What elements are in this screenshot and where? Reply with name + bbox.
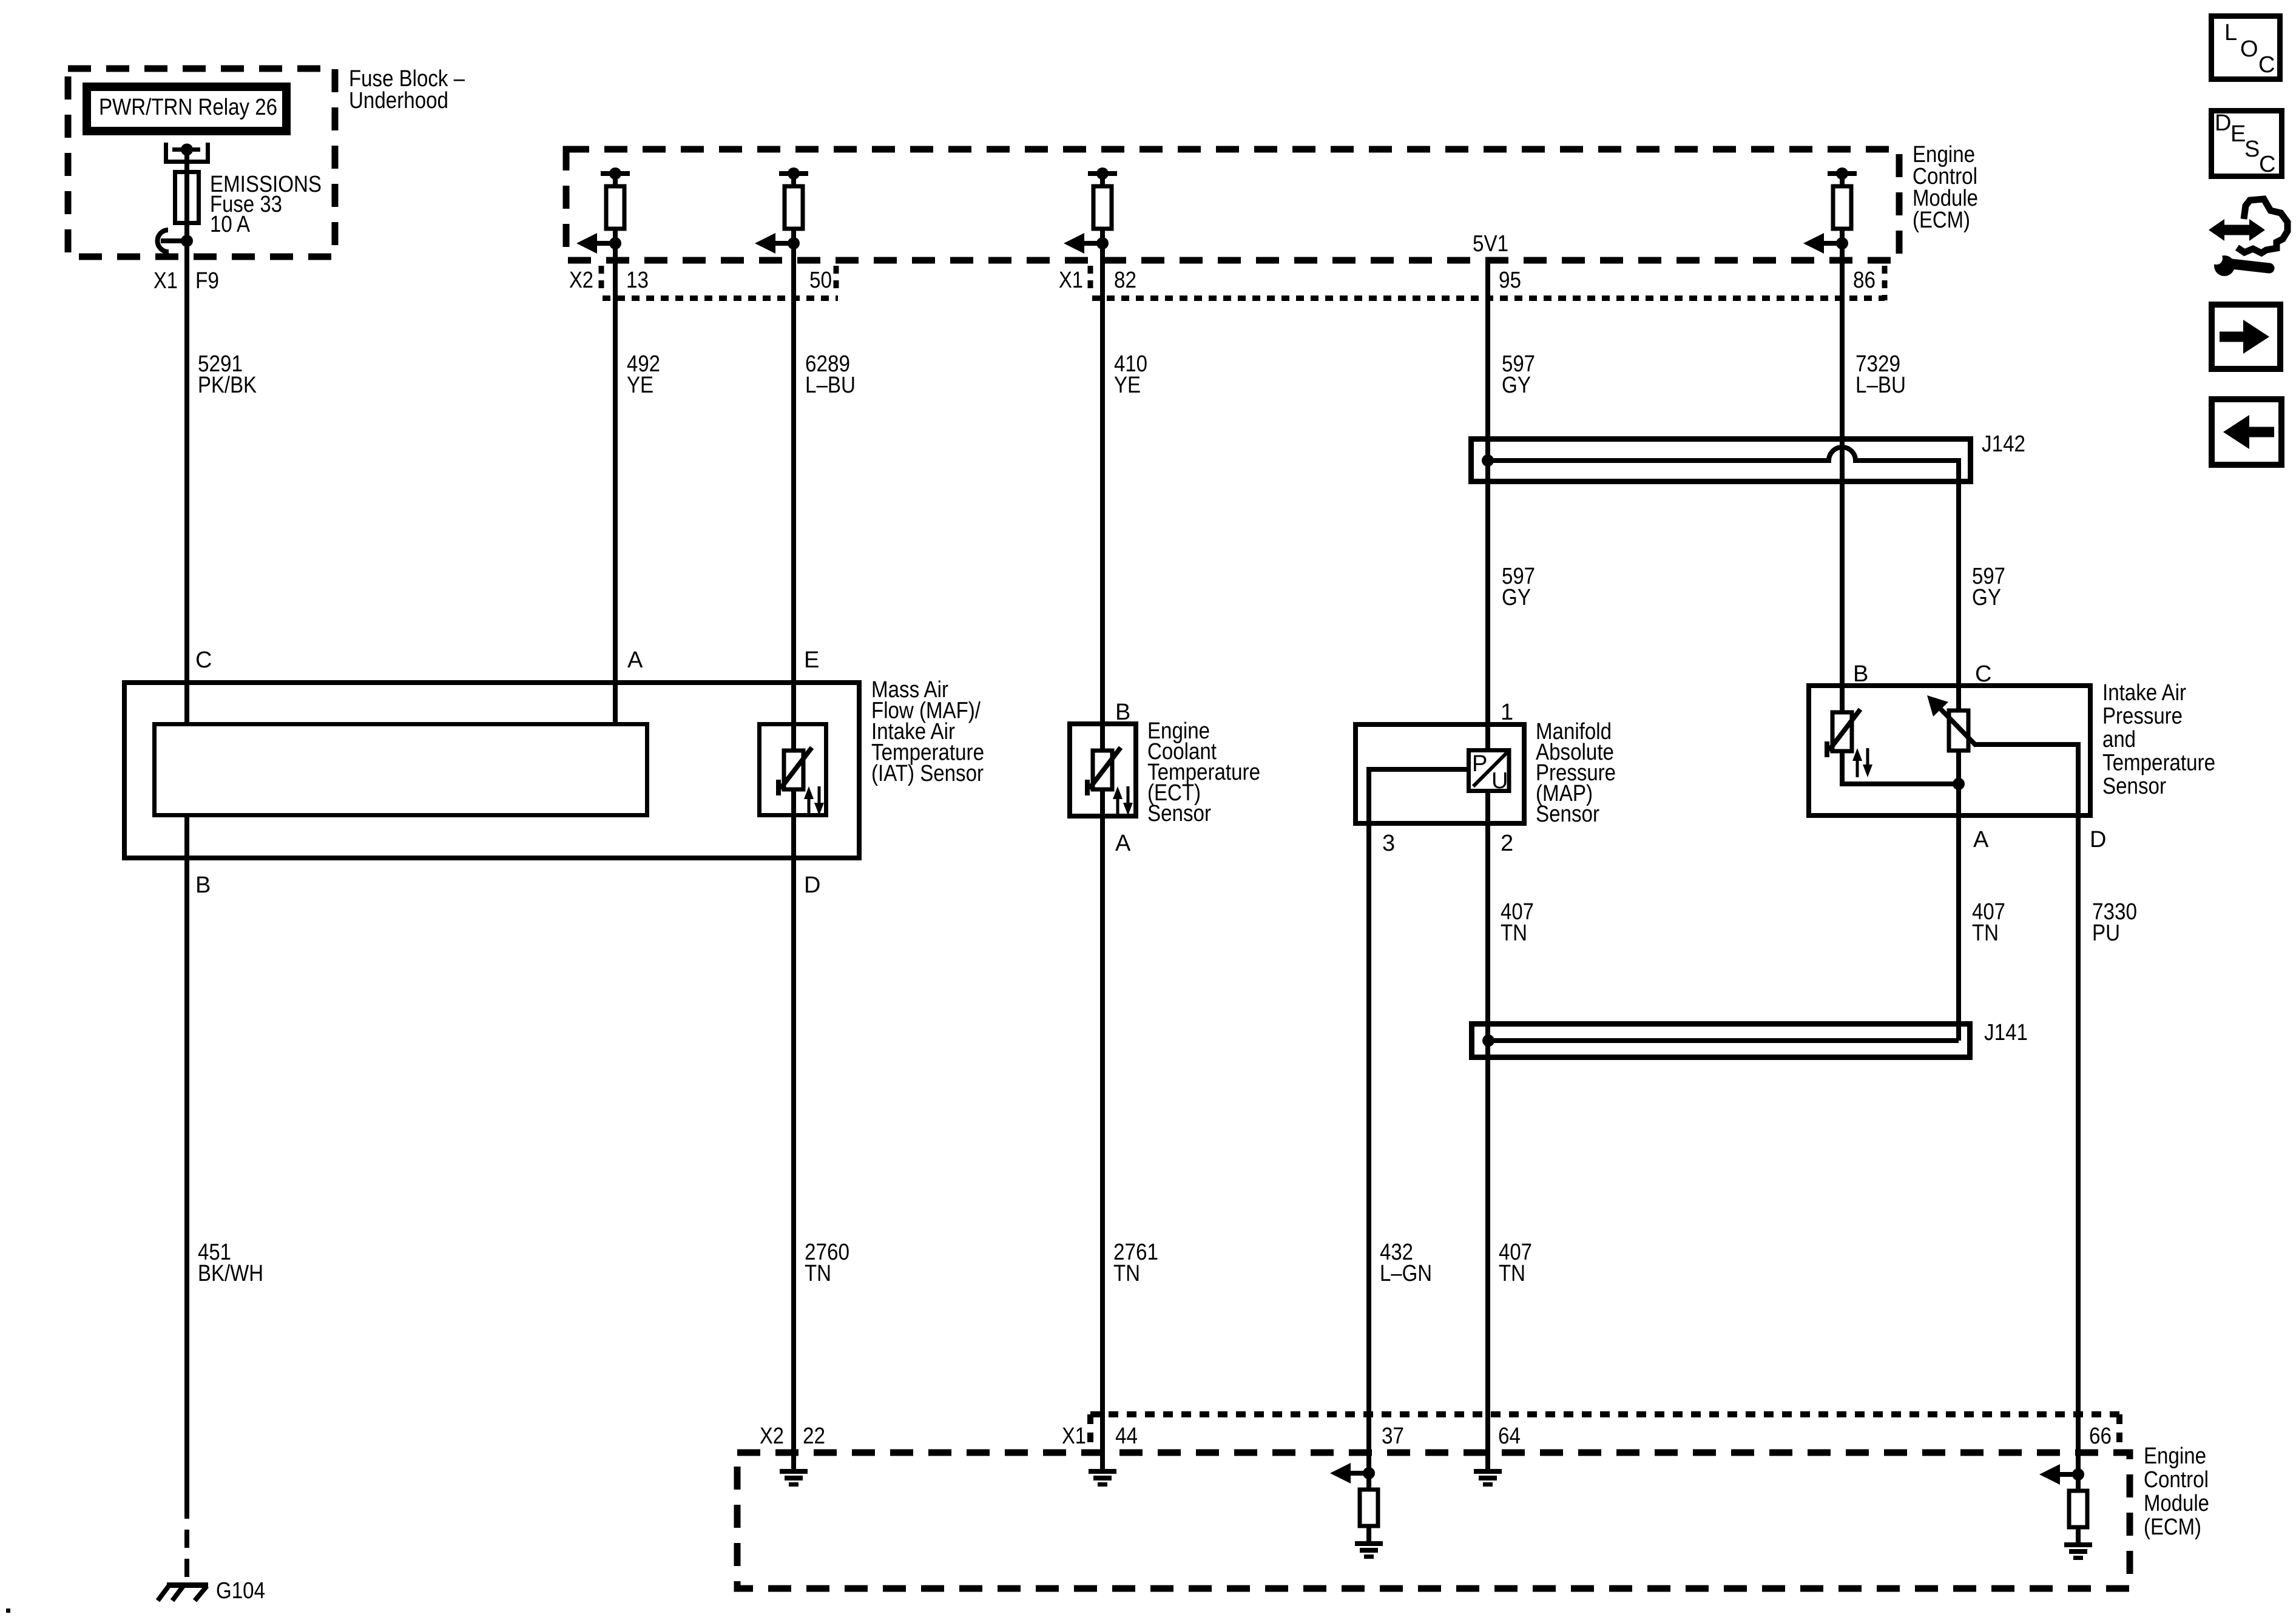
svg-text:64: 64 — [1498, 1423, 1521, 1449]
svg-text:95: 95 — [1499, 268, 1521, 293]
svg-text:(ECM): (ECM) — [1913, 208, 1970, 233]
svg-text:TN: TN — [805, 1261, 831, 1286]
wire 451 BK/WH: MAF pin B to G104 — [184, 817, 189, 1501]
svg-text:S: S — [2244, 137, 2260, 162]
svg-text:Sensor: Sensor — [1147, 801, 1211, 826]
wire 5291 PK/BK from fuse F9 down to MAF sensor pin C — [184, 223, 189, 722]
svg-text:C: C — [2259, 152, 2275, 177]
svg-text:YE: YE — [1114, 373, 1141, 398]
svg-text:C: C — [1975, 661, 1991, 687]
svg-text:D: D — [804, 873, 820, 898]
svg-text:GY: GY — [1972, 585, 2001, 610]
svg-text:X1: X1 — [1062, 1423, 1086, 1449]
svg-text:X1: X1 — [154, 268, 178, 294]
MAP P/U transducer U1 — [1469, 751, 1510, 791]
svg-text:10 A: 10 A — [210, 212, 251, 237]
svg-text:50: 50 — [809, 268, 832, 293]
svg-text:82: 82 — [1114, 268, 1136, 293]
svg-text:TN: TN — [1972, 920, 1999, 946]
svg-text:Pressure: Pressure — [2102, 704, 2183, 729]
svg-text:Temperature: Temperature — [2102, 751, 2215, 776]
svg-text:YE: YE — [627, 373, 653, 398]
connector X2 strip (top) — [601, 266, 838, 299]
svg-text:GY: GY — [1502, 373, 1531, 398]
svg-text:Underhood: Underhood — [349, 88, 448, 113]
ECM internal resistor at pin 86 — [1828, 171, 1857, 176]
ground at ECM pin 64 — [1474, 1469, 1502, 1487]
wire thermistor to pin A junction — [1842, 751, 1959, 784]
svg-text:B: B — [1115, 700, 1130, 725]
icon DESC — [2212, 111, 2282, 177]
svg-text:BK/WH: BK/WH — [198, 1261, 263, 1286]
wire intake pin A down to J141 — [1956, 784, 1961, 1041]
svg-text:L: L — [2224, 20, 2237, 46]
svg-text:C: C — [2258, 52, 2275, 78]
svg-text:PK/BK: PK/BK — [198, 373, 257, 398]
svg-text:1: 1 — [1501, 700, 1513, 725]
MAF/IAT sensor box — [124, 683, 859, 858]
wire 2761 TN: ECT pin A to ECM X1-44 — [1100, 789, 1105, 1469]
svg-text:D: D — [2215, 110, 2231, 136]
svg-text:Engine: Engine — [2144, 1443, 2206, 1469]
node: junction at intake pin A — [1953, 778, 1965, 790]
ECM internal resistor at pin 50 — [779, 171, 808, 176]
svg-text:(IAT) Sensor: (IAT) Sensor — [871, 761, 984, 786]
MAP sensor box — [1356, 724, 1524, 823]
wire MAP pin 3 from P/U to ECM pin 37 — [1369, 769, 1467, 1452]
wire: J141 bus — [1488, 1038, 1959, 1043]
node: fuse output junction — [181, 235, 193, 247]
svg-text:P: P — [1472, 751, 1487, 777]
wire 492 YE: pin 13 to MAF pin A — [613, 229, 618, 722]
MAF element inner box — [155, 724, 647, 815]
svg-text:D: D — [2090, 827, 2106, 852]
wire pot bottom to junction — [1956, 751, 1961, 784]
ground at ECM X1-44 — [1089, 1469, 1116, 1487]
svg-text:E: E — [804, 647, 819, 673]
wire pot wiper to pin D — [1975, 744, 2078, 1453]
ECM internal resistor at pin 13 — [601, 171, 630, 176]
icon LOC — [2212, 16, 2280, 79]
wire 6289 L-BU: pin 50 to IAT thermistor pin E — [791, 229, 796, 751]
svg-text:J142: J142 — [1982, 431, 2025, 457]
IAT thermistor sub-box — [760, 724, 826, 815]
svg-text:66: 66 — [2089, 1423, 2112, 1449]
ECM internal resistor at pin 82 — [1088, 171, 1117, 176]
relay K: PWR/TRN Relay 26 — [87, 87, 286, 131]
svg-text:PU: PU — [2092, 920, 2120, 946]
svg-text:X2: X2 — [569, 268, 593, 293]
fuse clip hook — [157, 230, 169, 252]
svg-text:Module: Module — [2144, 1491, 2209, 1516]
svg-text:44: 44 — [1115, 1423, 1138, 1449]
icon next-page arrow — [2212, 305, 2280, 369]
connector X1 strip (bottom) — [1090, 1414, 2119, 1451]
connector X1 strip (top) — [1090, 266, 1885, 300]
wire MAP pin 2 continues down — [1485, 793, 1490, 1469]
ECT thermistor RT2 — [1093, 751, 1112, 789]
svg-text:F9: F9 — [195, 268, 219, 294]
svg-text:and: and — [2102, 727, 2136, 752]
svg-text:PWR/TRN Relay 26: PWR/TRN Relay 26 — [99, 95, 277, 120]
wire 410 YE: pin 82 to ECT pin B — [1100, 229, 1105, 751]
splice J141 box — [1472, 1024, 1970, 1058]
svg-text:TN: TN — [1499, 1261, 1525, 1286]
ground at ECM X2-22 — [780, 1469, 808, 1487]
intake thermistor RT3 — [1832, 712, 1852, 751]
svg-text:O: O — [2240, 36, 2258, 62]
wire 2760 TN: MAF pin D to ECM X2-22 — [791, 789, 796, 1469]
ECM top dashed box: Engine Control Module (ECM) — [566, 149, 1899, 260]
svg-text:Intake Air: Intake Air — [2102, 680, 2186, 706]
svg-text:L–BU: L–BU — [1855, 373, 1906, 398]
svg-text:B: B — [195, 873, 211, 898]
svg-text:X2: X2 — [760, 1423, 784, 1449]
svg-text:J141: J141 — [1984, 1020, 2028, 1045]
node: J141 junction on 407 TN — [1482, 1035, 1494, 1047]
IAT thermistor RT1 — [784, 751, 803, 789]
svg-text:C: C — [195, 647, 212, 673]
ECT sensor box — [1070, 724, 1136, 816]
icon harness/wrench — [2237, 199, 2288, 253]
node: J142 junction on 597 GY — [1482, 454, 1494, 467]
fuse F33: EMISSIONS Fuse 33 10 A — [175, 172, 199, 223]
relay contact bracket — [166, 143, 208, 162]
ECM bottom dashed box: Engine Control Module (ECM) — [737, 1453, 2130, 1588]
svg-text:2: 2 — [1501, 831, 1513, 856]
fuse block dashed box: Fuse Block - Underhood — [68, 69, 335, 257]
svg-text:TN: TN — [1113, 1261, 1140, 1286]
intake air pressure and temperature sensor box — [1809, 686, 2090, 815]
svg-text:A: A — [627, 647, 643, 673]
svg-text:3: 3 — [1382, 831, 1395, 856]
ground G104 (chassis) — [167, 1582, 208, 1588]
intake potentiometer R1 — [1949, 711, 1968, 751]
wire 597 GY: pin 95 (5V1) down to MAP pin 1 — [1485, 260, 1490, 748]
svg-text:TN: TN — [1501, 920, 1527, 946]
svg-text:Control: Control — [2144, 1467, 2209, 1493]
ECM pin 37 internal: arrow, resistor, ground — [1366, 1452, 1371, 1490]
svg-text:GY: GY — [1502, 585, 1531, 610]
svg-text:L–GN: L–GN — [1380, 1261, 1432, 1286]
svg-text:X1: X1 — [1059, 268, 1083, 293]
svg-text:B: B — [1853, 661, 1868, 687]
svg-text:37: 37 — [1382, 1423, 1404, 1449]
splice J142 box — [1471, 439, 1971, 482]
wire relay to fuse — [184, 149, 189, 172]
svg-text:13: 13 — [626, 268, 649, 293]
svg-text:U: U — [1491, 768, 1508, 794]
icon prev-page arrow — [2212, 399, 2281, 465]
svg-text:A: A — [1115, 831, 1131, 856]
page dot — [6, 1609, 10, 1613]
svg-text:Sensor: Sensor — [1536, 802, 1599, 827]
wire: J142 bus with hop over 7329, to intake pin C — [1488, 447, 1959, 711]
svg-text:22: 22 — [803, 1423, 825, 1449]
ECM pin 66 internal: arrow, resistor, ground — [2076, 1453, 2081, 1491]
svg-text:E: E — [2230, 121, 2246, 147]
svg-text:5V1: 5V1 — [1473, 231, 1508, 257]
svg-text:G104: G104 — [216, 1578, 265, 1604]
svg-text:Sensor: Sensor — [2102, 774, 2166, 799]
node: relay output junction — [181, 144, 193, 156]
svg-text:(ECM): (ECM) — [2144, 1514, 2201, 1540]
svg-text:A: A — [1973, 827, 1989, 852]
wire 7329 L-BU: pin 86 down to intake sensor pin B — [1840, 229, 1845, 712]
svg-text:L–BU: L–BU — [805, 373, 856, 398]
svg-text:86: 86 — [1853, 268, 1876, 293]
